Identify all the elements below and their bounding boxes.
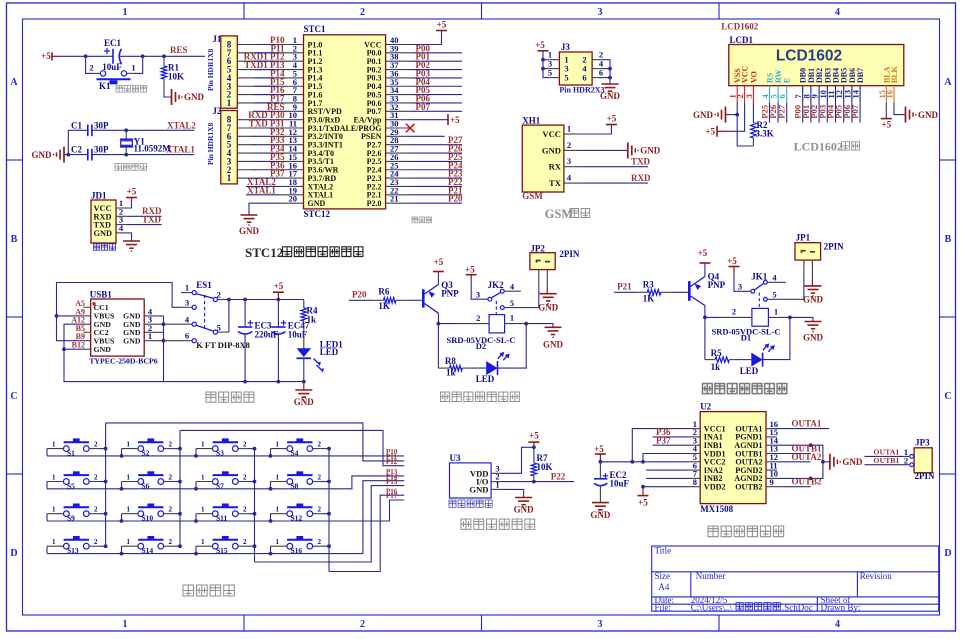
svg-text:5: 5 — [548, 68, 552, 78]
pushbutton S1 — [47, 438, 98, 457]
wire — [737, 102, 753, 146]
svg-text:JP2: JP2 — [530, 243, 545, 253]
ground (mcu) — [239, 215, 260, 236]
wire — [68, 154, 88, 156]
wire — [46, 546, 48, 553]
wire — [777, 445, 823, 478]
power port +5 (power circuit) — [273, 281, 284, 299]
svg-text:2: 2 — [243, 440, 247, 448]
svg-text:2: 2 — [169, 440, 173, 448]
connector JP2 2PIN — [530, 243, 580, 285]
svg-text:DB7: DB7 — [856, 68, 865, 83]
mcu right pins — [386, 45, 410, 204]
svg-text:30P: 30P — [94, 120, 109, 130]
svg-text:EC1: EC1 — [104, 38, 122, 48]
svg-text:MX1508: MX1508 — [700, 504, 733, 514]
svg-text:1: 1 — [52, 473, 56, 481]
svg-text:1: 1 — [201, 440, 205, 448]
connector JD1 — [91, 190, 127, 243]
relay switch JK2 — [476, 280, 539, 316]
svg-text:Size: Size — [655, 571, 671, 581]
svg-text:1k: 1k — [446, 368, 456, 378]
no-ERC marker (ALE/PROG) — [406, 124, 415, 133]
svg-text:P07: P07 — [416, 102, 431, 112]
net label P05 (vertical) — [834, 102, 844, 122]
svg-text:1: 1 — [276, 506, 280, 514]
connector JP1 2PIN — [795, 233, 844, 278]
svg-text:VCC: VCC — [542, 129, 561, 139]
svg-text:2: 2 — [360, 619, 365, 630]
svg-text:10uF: 10uF — [288, 330, 308, 340]
svg-text:P20: P20 — [352, 289, 367, 299]
svg-text:5: 5 — [564, 73, 568, 83]
wire — [254, 77, 279, 79]
wire — [229, 299, 304, 301]
wire — [253, 119, 279, 121]
junction — [84, 54, 88, 58]
wire — [727, 102, 745, 131]
svg-text:1: 1 — [52, 506, 56, 514]
svg-text:GND: GND — [94, 229, 112, 238]
wire — [543, 68, 548, 70]
wire — [253, 160, 279, 162]
svg-text:16: 16 — [885, 90, 895, 99]
svg-text:BLK: BLK — [890, 65, 899, 83]
wire — [120, 55, 165, 57]
connector J2 Pin HDR1X8 — [206, 106, 255, 184]
svg-text:P37: P37 — [656, 435, 671, 445]
wire — [60, 55, 113, 57]
junction — [253, 447, 257, 451]
net label P00 — [410, 43, 462, 53]
junction — [194, 454, 198, 458]
junction — [178, 447, 182, 451]
pushbutton S8 — [271, 471, 322, 490]
svg-text:D: D — [10, 548, 17, 559]
wire — [255, 69, 279, 71]
svg-text:GND: GND — [543, 340, 564, 350]
junction — [269, 519, 273, 523]
label 晶振电路 — [115, 164, 147, 171]
power port +5 (BLA) — [881, 102, 892, 129]
svg-text:1: 1 — [52, 538, 56, 546]
wire — [246, 185, 279, 187]
svg-text:GND: GND — [239, 226, 260, 236]
net label P21 — [410, 185, 463, 195]
wire — [195, 546, 197, 553]
svg-text:D: D — [944, 548, 951, 559]
svg-text:4: 4 — [835, 619, 840, 630]
svg-text:+5: +5 — [705, 127, 715, 137]
net label P04 (vertical) — [826, 102, 836, 122]
junction — [124, 128, 128, 132]
lcd pin numbers — [728, 89, 895, 98]
wire — [538, 285, 540, 307]
svg-text:+5: +5 — [434, 257, 444, 267]
svg-text:4: 4 — [772, 272, 777, 282]
pushbutton S7 — [196, 471, 247, 490]
wire — [46, 449, 48, 456]
capacitor EC1 10uF — [102, 38, 122, 72]
svg-text:P07: P07 — [850, 104, 860, 118]
svg-text:+5: +5 — [881, 120, 891, 130]
wire — [127, 202, 132, 208]
wire — [270, 449, 272, 456]
svg-text:+5: +5 — [727, 256, 737, 266]
svg-text:File:: File: — [655, 602, 672, 612]
net label OUTA1 (U2) — [777, 419, 829, 429]
wire — [603, 77, 610, 79]
relay coil D2 SRD-05VDC-SL-C — [447, 313, 527, 352]
junction — [104, 447, 108, 451]
svg-text:C2: C2 — [71, 145, 82, 155]
pushbutton S13 — [47, 536, 98, 555]
svg-text:P12: P12 — [386, 458, 398, 466]
svg-text:2: 2 — [318, 538, 322, 546]
svg-text:1: 1 — [127, 538, 131, 546]
svg-text:+5: +5 — [274, 281, 284, 291]
svg-text:2: 2 — [567, 140, 571, 150]
svg-text:R8: R8 — [445, 356, 456, 366]
wire — [255, 77, 279, 79]
svg-text:2: 2 — [904, 456, 908, 466]
svg-text:GND: GND — [542, 145, 561, 155]
wire — [68, 130, 88, 154]
svg-text:K1: K1 — [99, 81, 111, 91]
wire — [254, 85, 279, 87]
resistor R7 10K — [531, 447, 552, 481]
svg-text:2: 2 — [169, 538, 173, 546]
net label RXD — [578, 173, 651, 183]
junction — [630, 460, 634, 464]
wire — [410, 135, 445, 137]
power port +5 (EC2) — [594, 444, 606, 462]
net label P06 — [410, 93, 462, 103]
net label TXD — [578, 156, 651, 166]
svg-text:U2: U2 — [700, 402, 711, 412]
net label OUTB1 (JP3) — [865, 456, 910, 465]
svg-text:GND: GND — [123, 337, 141, 346]
svg-text:1: 1 — [227, 98, 232, 108]
svg-text:3: 3 — [185, 297, 189, 307]
svg-text:OUTA2: OUTA2 — [792, 452, 822, 462]
svg-text:LED: LED — [476, 374, 495, 384]
driver U2 MX1508 body — [700, 402, 766, 514]
connector J1 Pin HDR1X8 — [206, 34, 255, 108]
svg-text:OUTB2: OUTB2 — [792, 477, 823, 487]
wire — [106, 423, 405, 461]
net label P25 — [410, 152, 463, 162]
junction — [227, 298, 231, 302]
pushbutton S16 — [271, 536, 322, 555]
mcu pin names — [308, 40, 383, 208]
svg-text:RES: RES — [170, 45, 188, 55]
wire — [47, 455, 404, 457]
label 矩阵键盘 — [183, 585, 234, 596]
ground (JD1) — [123, 241, 140, 252]
svg-text:4: 4 — [185, 314, 190, 324]
wire — [321, 513, 329, 515]
wire — [253, 110, 279, 112]
svg-text:PNP: PNP — [441, 289, 459, 299]
svg-text:11.0592M: 11.0592M — [134, 144, 172, 154]
pushbutton S15 — [196, 536, 247, 555]
svg-text:+5: +5 — [594, 444, 604, 454]
label STC12单片机最小系统 — [245, 245, 363, 260]
wire — [437, 313, 439, 323]
svg-text:GND: GND — [640, 146, 661, 156]
power port +5 (JD1) — [126, 187, 137, 203]
svg-text:1k: 1k — [307, 315, 317, 325]
net label P02 — [410, 60, 462, 70]
net label P26 — [410, 144, 463, 154]
svg-text:2: 2 — [318, 440, 322, 448]
svg-text:ES1: ES1 — [196, 280, 212, 290]
wire — [254, 44, 279, 46]
svg-text:LED: LED — [320, 347, 339, 357]
svg-text:1: 1 — [495, 479, 499, 489]
resistor R5 1k — [705, 348, 737, 372]
wire — [97, 448, 105, 450]
wire — [270, 482, 272, 489]
pushbutton S14 — [122, 536, 173, 555]
svg-text:VCC: VCC — [741, 65, 750, 83]
svg-text:GND: GND — [469, 484, 488, 494]
svg-text:JK2: JK2 — [488, 280, 505, 290]
svg-text:GSM: GSM — [545, 207, 574, 221]
power ground GND (BLK) — [906, 107, 939, 123]
wire — [121, 514, 123, 521]
svg-text:1: 1 — [276, 473, 280, 481]
wire — [704, 317, 706, 359]
svg-text:1: 1 — [774, 306, 778, 316]
wire — [255, 94, 279, 96]
wire — [646, 477, 689, 479]
mcu left pins — [279, 45, 304, 204]
wire — [254, 94, 279, 96]
svg-text:2: 2 — [243, 538, 247, 546]
wire — [195, 482, 197, 489]
svg-text:2: 2 — [94, 473, 98, 481]
wire — [195, 449, 197, 456]
wire — [64, 324, 304, 381]
svg-text:30P: 30P — [94, 145, 109, 155]
wire — [255, 102, 279, 104]
net label OUTB1 (U2) — [777, 444, 822, 454]
power port +5 (U3) — [528, 431, 539, 448]
svg-text:1: 1 — [127, 506, 131, 514]
svg-text:LCD1602: LCD1602 — [721, 22, 759, 32]
svg-text:LED: LED — [740, 366, 759, 376]
wire — [249, 203, 279, 215]
wire — [92, 154, 126, 156]
wire — [763, 317, 790, 359]
net label P36 — [653, 427, 689, 437]
svg-text:+5: +5 — [437, 20, 447, 30]
junction — [269, 454, 273, 458]
junction — [437, 322, 441, 326]
svg-text:2: 2 — [243, 506, 247, 514]
svg-text:6: 6 — [185, 331, 189, 341]
wire — [321, 481, 329, 483]
svg-text:GND: GND — [918, 110, 939, 120]
svg-text:STC12: STC12 — [304, 209, 331, 219]
wire — [172, 513, 180, 515]
wire — [253, 135, 279, 137]
wire — [195, 514, 197, 521]
wire — [121, 449, 123, 456]
wire — [253, 169, 279, 171]
svg-text:1: 1 — [127, 473, 131, 481]
net label P02 (vertical) — [809, 102, 819, 122]
power port +5 (reset) — [41, 51, 60, 61]
resistor R1 10K — [161, 56, 184, 92]
svg-text:GSM: GSM — [522, 191, 543, 201]
wire — [135, 56, 143, 73]
svg-text:LCD1602: LCD1602 — [776, 48, 842, 65]
net label XTAL1 — [126, 145, 195, 155]
svg-text:OUTB2: OUTB2 — [735, 483, 762, 492]
wire — [105, 423, 107, 546]
svg-text:XH1: XH1 — [522, 116, 541, 126]
svg-text:JP1: JP1 — [796, 233, 811, 243]
wire — [253, 127, 279, 129]
svg-text:P17: P17 — [386, 492, 398, 500]
junction — [608, 67, 612, 71]
wire — [179, 430, 181, 546]
sensor U3 — [450, 453, 503, 498]
svg-text:C: C — [944, 391, 951, 402]
net label RXD — [127, 206, 162, 216]
label LCD1602显示 — [794, 140, 860, 154]
junction — [124, 153, 128, 157]
connector JP3 2PIN — [904, 438, 935, 481]
svg-text:220uF: 220uF — [255, 330, 280, 340]
pushbutton S11 — [196, 504, 247, 523]
wire — [328, 449, 330, 572]
svg-text:3.3K: 3.3K — [756, 129, 774, 139]
pushbutton S12 — [271, 504, 322, 523]
svg-text:+5: +5 — [698, 248, 708, 258]
junction — [120, 552, 124, 556]
junction — [532, 480, 536, 484]
power ground GND (U2) — [830, 454, 863, 470]
wire — [121, 546, 123, 553]
svg-text:1k: 1k — [711, 362, 721, 372]
net label TXD — [127, 214, 162, 224]
ground (J3) — [600, 84, 621, 101]
svg-text:6: 6 — [777, 94, 787, 98]
svg-text:D1: D1 — [741, 333, 751, 343]
junction — [55, 314, 59, 318]
wire — [121, 482, 123, 489]
svg-text:RX: RX — [549, 162, 562, 172]
wire — [790, 317, 813, 321]
label 继电器控制输出 (left) — [441, 392, 520, 402]
svg-text:JP3: JP3 — [915, 438, 930, 448]
net label P23 — [410, 169, 463, 179]
svg-text:E: E — [783, 78, 792, 83]
svg-text:GND: GND — [538, 303, 559, 313]
resistor R3 1K — [637, 279, 672, 303]
svg-text:Revision: Revision — [860, 571, 893, 581]
svg-text:GND: GND — [803, 333, 824, 343]
junction — [243, 380, 247, 384]
pushbutton S3 — [196, 438, 247, 457]
junction — [194, 519, 198, 523]
junction — [541, 58, 545, 62]
crystal Y1 11.0592M — [120, 130, 171, 154]
svg-text:TXD: TXD — [631, 156, 651, 166]
junction — [62, 347, 66, 351]
svg-text:STC12: STC12 — [245, 245, 283, 260]
capacitor EC2 10uF — [594, 462, 630, 503]
wire — [97, 481, 105, 483]
junction — [66, 153, 70, 157]
pushbutton S6 — [122, 471, 173, 490]
power port +5 (EA/Vpp) — [410, 114, 460, 125]
svg-text:JD1: JD1 — [91, 190, 107, 200]
net label P27 — [410, 135, 463, 145]
svg-text:10uF: 10uF — [610, 478, 630, 488]
svg-text:14: 14 — [851, 89, 861, 98]
power port +5 (Q4) — [698, 248, 711, 277]
svg-text:P22: P22 — [551, 471, 566, 481]
wire — [253, 144, 279, 146]
power port +5 (Q3) — [433, 257, 444, 285]
label 下载口 — [94, 244, 116, 250]
ground (U3) — [514, 498, 535, 515]
junction — [524, 322, 528, 326]
wire — [46, 482, 48, 489]
pushbutton K1 — [89, 63, 135, 92]
svg-text:10K: 10K — [168, 72, 184, 82]
svg-text:VDD2: VDD2 — [704, 483, 726, 492]
svg-text:+5: +5 — [529, 431, 539, 441]
junction — [120, 519, 124, 523]
svg-text:1K: 1K — [643, 294, 655, 304]
junction — [735, 113, 739, 117]
svg-text:+5: +5 — [465, 264, 475, 274]
wire — [643, 486, 689, 488]
svg-text:A: A — [944, 77, 952, 88]
svg-text:3: 3 — [598, 7, 603, 18]
svg-text:LCD1: LCD1 — [730, 35, 754, 45]
svg-text:R6: R6 — [378, 286, 389, 296]
svg-text:+5: +5 — [450, 115, 460, 125]
power port +5 (LCD) — [705, 126, 727, 137]
wire — [672, 291, 689, 293]
wire — [255, 486, 405, 562]
transistor Q4 PNP — [689, 272, 725, 306]
svg-text:K FT DIP-8X8: K FT DIP-8X8 — [196, 340, 250, 350]
svg-text:1: 1 — [127, 440, 131, 448]
svg-text:1: 1 — [201, 473, 205, 481]
wire — [408, 299, 423, 301]
wire — [603, 60, 610, 84]
wire — [64, 154, 68, 156]
junction — [641, 485, 645, 489]
svg-text:B: B — [945, 234, 952, 245]
wire — [92, 129, 126, 131]
label 温度传感器 — [449, 500, 492, 507]
svg-text:+5: +5 — [127, 187, 137, 197]
wire — [172, 448, 180, 450]
net label P07 (vertical) — [850, 102, 860, 122]
svg-text:2: 2 — [94, 440, 98, 448]
label 温度采集模块 — [461, 519, 535, 529]
wire — [246, 481, 254, 483]
